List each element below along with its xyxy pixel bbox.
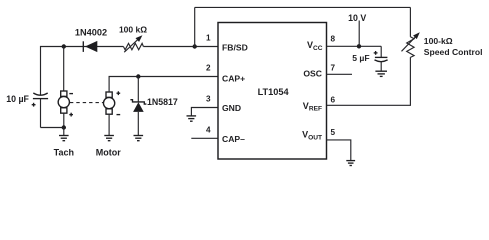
svg-text:Motor: Motor	[96, 148, 121, 158]
tach minus sign	[69, 93, 73, 95]
svg-text:10 V: 10 V	[348, 13, 366, 23]
svg-text:OSC: OSC	[303, 69, 322, 79]
wire: main left horizontal net (pin 1 FB/SD)	[41, 47, 219, 128]
svg-text:Speed Control: Speed Control	[424, 47, 483, 57]
wire: 5uF cap top lead	[380, 46, 382, 57]
wire: motor bottom lead	[108, 114, 110, 135]
resistor R1 100k trimpot zigzag	[123, 43, 143, 49]
motor-tach symbol: tachometer	[58, 91, 69, 113]
svg-text:CAP–: CAP–	[222, 134, 245, 144]
tach plus sign	[69, 113, 73, 117]
svg-text:5: 5	[331, 128, 336, 137]
wire: riser from pin 1 node to top rail	[194, 7, 196, 46]
ground under motor	[104, 136, 114, 141]
motor minus sign	[117, 114, 121, 116]
diode D1 1N4002	[83, 41, 97, 52]
motor symbol	[103, 92, 114, 114]
node: diode junction on CAP+ rail	[136, 74, 140, 78]
svg-text:100-kΩ: 100-kΩ	[424, 36, 453, 46]
wire: 1N5817 anode lead	[137, 112, 139, 135]
svg-text:10 µF: 10 µF	[6, 94, 29, 104]
wire: pin 4 CAP- stub	[191, 137, 218, 139]
svg-text:7: 7	[331, 63, 336, 72]
wire: motor top lead to CAP+ rail	[109, 77, 218, 93]
motor plus sign	[117, 91, 121, 95]
svg-text:100 kΩ: 100 kΩ	[119, 25, 147, 35]
mechanical coupling dashed line	[70, 102, 103, 104]
wire: tach top riser	[63, 47, 65, 92]
wire: pin 3 GND stub	[191, 108, 218, 116]
svg-text:2: 2	[206, 64, 211, 73]
node: tach top junction	[62, 44, 66, 48]
ground at pin 5	[346, 161, 355, 166]
svg-text:3: 3	[206, 95, 211, 104]
polarity + for C2	[374, 51, 378, 55]
diode D2 1N5817 schottky (cathode bar with hooks, triangle below)	[130, 100, 146, 112]
svg-text:FB/SD: FB/SD	[222, 43, 248, 53]
capacitor C2 5uF (straight top plate, curved bottom plate)	[375, 57, 388, 61]
wire: tach bottom lead	[63, 113, 65, 127]
polarity + for C1	[32, 103, 36, 107]
wire: right rail upper segment	[409, 7, 411, 36]
wire: bottom left corner to tach junction	[41, 127, 64, 129]
ground at pin 3	[187, 116, 197, 121]
potentiometer arrow	[402, 32, 420, 51]
wire: pin 7 OSC stub	[327, 73, 353, 75]
wire: pin 5 VOUT to ground	[327, 140, 351, 160]
svg-text:1N5817: 1N5817	[147, 97, 178, 107]
trimpot R1 arrow	[124, 35, 142, 52]
wire: VCC pin 8 net	[327, 45, 382, 47]
ground under tach	[59, 136, 69, 141]
capacitor C1 10uF (curved top plate, straight bottom plate)	[33, 93, 48, 99]
svg-text:GND: GND	[222, 103, 241, 113]
svg-text:5 µF: 5 µF	[352, 53, 369, 63]
wire: right rail lower segment to VREF	[327, 57, 411, 105]
svg-text:6: 6	[331, 95, 336, 104]
wire: top rail	[195, 6, 411, 8]
wire: 10V supply drop	[358, 21, 360, 47]
svg-text:4: 4	[206, 125, 211, 134]
svg-text:8: 8	[331, 34, 336, 43]
svg-text:CAP+: CAP+	[222, 74, 245, 84]
node: 10V supply junction	[357, 44, 361, 48]
op-amp U1 LT1054 IC body	[218, 23, 327, 160]
svg-text:1: 1	[206, 34, 211, 43]
potentiometer speed control zigzag	[407, 37, 414, 58]
node: FB/SD riser junction	[193, 44, 197, 48]
wire: tach ground stub	[63, 128, 65, 136]
wire: 5uF bottom lead	[380, 62, 382, 71]
ground under 1N5817	[134, 136, 144, 141]
svg-text:1N4002: 1N4002	[75, 28, 107, 38]
node: tach bottom junction	[62, 125, 66, 129]
svg-text:LT1054: LT1054	[258, 87, 290, 97]
ground under 5uF	[375, 71, 387, 76]
wire: 1N5817 cathode lead	[137, 77, 139, 102]
svg-text:Tach: Tach	[54, 148, 74, 158]
